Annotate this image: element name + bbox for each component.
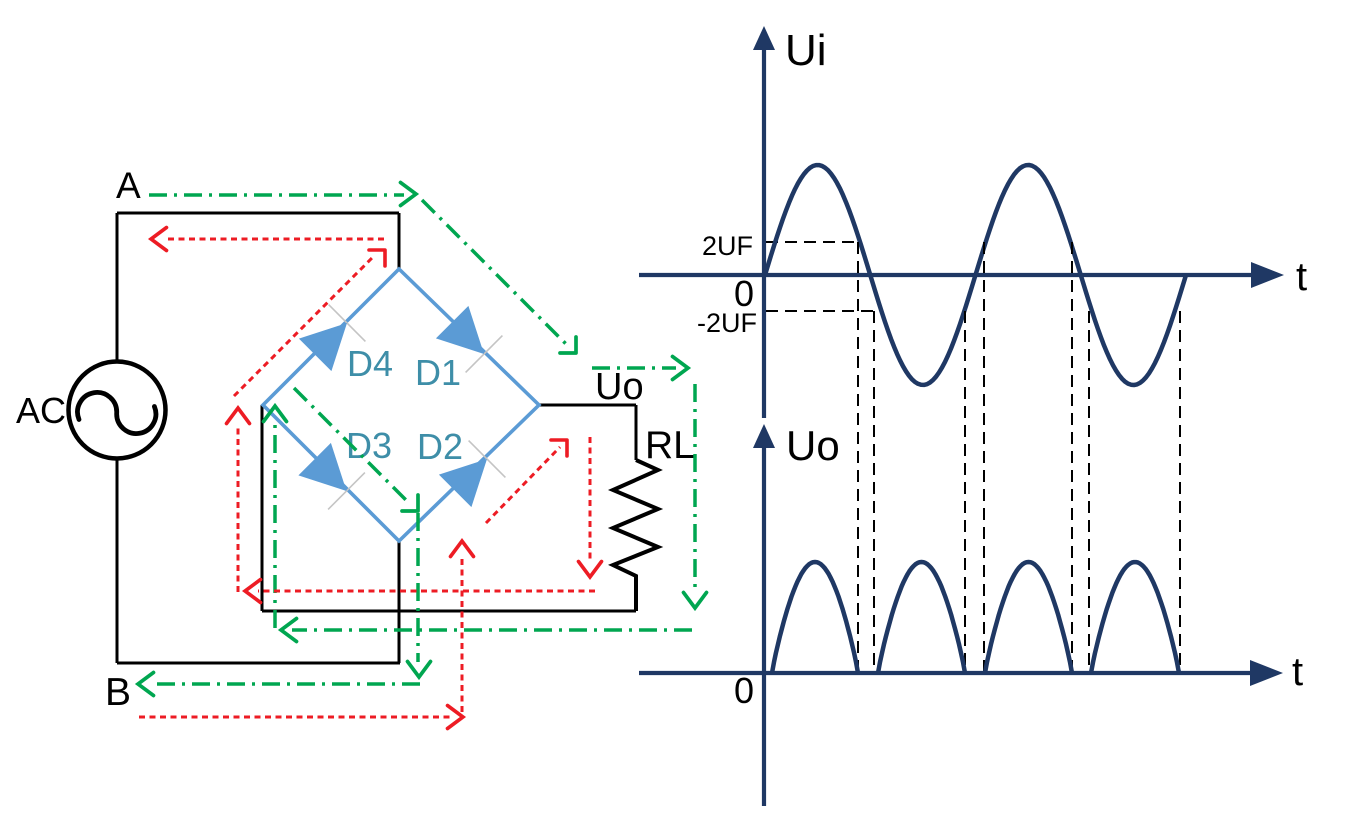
svg-text:Ui: Ui [785, 26, 827, 75]
wire: bridge bottom stub [398, 541, 401, 663]
Uo plot t-axis [639, 671, 1252, 675]
wire: bottom wire B to bridge bottom [117, 662, 400, 665]
wire red D2 diagonal [486, 447, 560, 523]
wire red left vertical [237, 424, 240, 592]
svg-text:D1: D1 [415, 352, 461, 393]
arrow green up left riser [264, 406, 287, 422]
wire red top horizontal [164, 238, 384, 241]
svg-text:Uo: Uo [786, 422, 840, 469]
svg-text:2UF: 2UF [702, 231, 753, 261]
diode D4 triangle [299, 323, 347, 371]
wire: left vertex riser [261, 405, 264, 611]
bridge diamond edges [263, 269, 539, 541]
diode D3 triangle [298, 443, 346, 491]
wire green D1 diagonal [422, 200, 566, 344]
diode D3 cathode bar [328, 473, 365, 510]
Ui t-axis arrowhead [1251, 262, 1284, 288]
wire: top wire from node A to bridge top [117, 213, 399, 362]
svg-text:t: t [1296, 255, 1307, 299]
Uo hump 3 [985, 562, 1072, 673]
red current path negative half [139, 239, 595, 717]
arrow green right at Uo [673, 357, 689, 380]
svg-text:t: t [1292, 650, 1303, 694]
Uo t-axis arrowhead [1250, 660, 1283, 686]
dashed drop line 6 [1088, 311, 1090, 673]
wire red mid horizontal [258, 590, 595, 593]
green current path positive half [149, 195, 695, 684]
arrow green left bottom [281, 619, 297, 642]
wire green Uo horizontal [592, 366, 676, 370]
arrow green left at B [138, 673, 154, 696]
diode D4 cathode bar [329, 305, 366, 342]
arrow red down RL [579, 562, 602, 578]
wire: bridge top stub [398, 213, 401, 269]
Ui plot y-axis [762, 46, 766, 418]
Uo y-axis arrowhead [753, 424, 775, 448]
arrow green right at A end [401, 183, 417, 206]
diode D2 triangle [439, 459, 487, 507]
svg-text:AC: AC [16, 390, 66, 431]
wire green left riser [273, 420, 277, 628]
dashed drop line 3 [964, 311, 966, 673]
wire green down to B [416, 513, 420, 662]
Ui sine waveform [765, 165, 1186, 385]
Uo hump 2 [878, 562, 965, 673]
dashed drop line 7 [1179, 311, 1181, 673]
Uo hump 1 [772, 562, 858, 673]
wire red bottom horizontal [139, 716, 450, 719]
wire green bottom return [292, 628, 692, 632]
diode D2 cathode bar [469, 441, 506, 478]
svg-text:Uo: Uo [595, 366, 644, 408]
wire red RL vertical [589, 437, 592, 562]
svg-text:A: A [116, 165, 141, 206]
AC source sine symbol [78, 392, 156, 433]
wire: Uo output wire right vertex to RL [539, 405, 636, 460]
dashed drop line 5 [1071, 242, 1073, 673]
arrow green corner D1 [560, 337, 576, 353]
svg-text:D2: D2 [417, 426, 463, 467]
svg-text:RL: RL [645, 424, 695, 467]
svg-text:B: B [105, 671, 131, 714]
arrow red up left vertical [227, 408, 250, 424]
arrow green down at B [408, 662, 431, 678]
arrow red corner D4 [369, 250, 385, 266]
wire green A horizontal [149, 193, 404, 197]
svg-text:-2UF: -2UF [697, 308, 757, 338]
dashed drop line 1 [857, 242, 859, 673]
wire green B horizontal [152, 682, 420, 686]
dashed drop line 4 [983, 242, 985, 673]
arrow red up right vertical [451, 541, 474, 557]
Ui y-axis arrowhead [753, 26, 775, 50]
dashed level 2UF [766, 241, 858, 243]
resistor RL zigzag [613, 460, 658, 611]
wire red right vertical from B [461, 556, 464, 712]
diode D1 cathode bar [466, 336, 503, 373]
Uo plot y-axis [762, 444, 766, 806]
svg-text:D4: D4 [347, 343, 393, 384]
wire: RL bottom return wire [262, 610, 636, 613]
arrow green down RL [684, 593, 707, 609]
wire: left lower wire from source to B [116, 459, 119, 664]
diode D1 triangle [436, 306, 484, 354]
wire green RL vertical [693, 384, 697, 592]
wire green D3 diagonal [294, 388, 408, 502]
arrow green corner D3 [402, 495, 418, 511]
svg-text:0: 0 [734, 670, 754, 711]
dashed level -2UF [766, 310, 875, 312]
AC source circle [69, 362, 166, 459]
arrow red right bottom [448, 706, 464, 729]
arrow red left mid [245, 580, 261, 603]
Ui plot t-axis [639, 273, 1254, 277]
arrow red left top [151, 228, 167, 251]
arrow red corner D2 [551, 440, 567, 456]
dashed drop line 2 [873, 311, 875, 673]
wire red D4 diagonal [234, 258, 372, 396]
Uo hump 4 [1091, 562, 1179, 673]
